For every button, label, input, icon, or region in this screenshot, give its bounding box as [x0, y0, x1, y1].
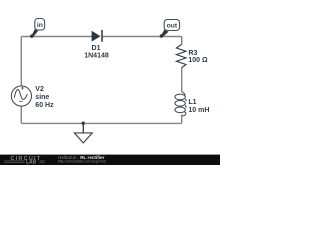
svg-text:R3: R3	[188, 50, 197, 57]
wire right upper segment	[181, 37, 183, 45]
CircuitLab logo	[4, 156, 45, 165]
diode D1	[92, 30, 102, 42]
svg-text:100 Ω: 100 Ω	[188, 57, 208, 64]
inductor L1	[175, 92, 186, 117]
svg-text:1N4148: 1N4148	[84, 52, 109, 59]
voltage source V2	[11, 86, 31, 106]
net flag out	[160, 20, 180, 38]
wire top-right segment (net out)	[102, 36, 182, 38]
watermark bar	[0, 155, 220, 165]
svg-text:http://circuitlab.com/cqs7w3: http://circuitlab.com/cqs7w3	[58, 159, 106, 164]
svg-text:out: out	[167, 23, 178, 30]
wire right middle segment	[181, 68, 183, 92]
ground	[74, 123, 92, 142]
wire bottom segment	[21, 122, 181, 124]
svg-text:L1: L1	[188, 99, 196, 106]
svg-text:V2: V2	[35, 86, 44, 93]
junction node dot	[82, 122, 85, 125]
svg-text:sine: sine	[35, 94, 49, 101]
net flag in	[30, 19, 45, 38]
svg-text:LAB: LAB	[26, 159, 37, 165]
svg-text:10 mH: 10 mH	[188, 107, 209, 114]
svg-text:in: in	[37, 22, 43, 29]
resistor R3	[176, 44, 186, 67]
wire left lower segment	[20, 106, 22, 123]
svg-text:60 Hz: 60 Hz	[35, 102, 54, 109]
wire top-left segment (net in)	[21, 36, 92, 38]
wire right lower segment	[181, 115, 183, 124]
wire left upper segment	[20, 37, 22, 87]
svg-text:D1: D1	[92, 45, 101, 52]
